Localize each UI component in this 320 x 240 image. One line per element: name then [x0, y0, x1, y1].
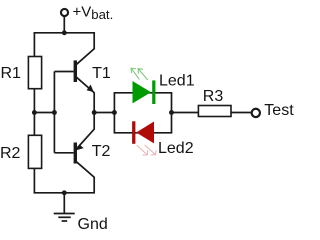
wire R3 to Test [231, 112, 252, 114]
wire bridge to R3 [172, 112, 199, 114]
wire left rail upper [33, 33, 35, 57]
wire base vertical [53, 72, 55, 153]
svg-text:T1: T1 [92, 65, 111, 82]
node base junction [52, 110, 57, 115]
Led2 emission arrows [137, 145, 156, 155]
wire mid rail segment A [34, 112, 55, 114]
wire LED bridge frame [114, 93, 173, 133]
resistor R3 [198, 106, 231, 117]
node bridge left [112, 110, 117, 115]
wire top rail [34, 32, 96, 34]
Led1 emission arrows [131, 68, 148, 80]
wire R1 to mid rail [33, 89, 35, 113]
svg-text:Gnd: Gnd [78, 216, 108, 233]
svg-text:Led1: Led1 [159, 73, 195, 90]
node ground junction [62, 190, 67, 195]
svg-text:Led2: Led2 [158, 140, 194, 157]
node bridge right [169, 110, 174, 115]
transistor T2 [54, 113, 94, 193]
wire Vbat stem [63, 16, 65, 33]
LED Led1 green [133, 80, 156, 104]
node emitter junction [92, 110, 97, 115]
ground [54, 193, 75, 221]
terminal Test [252, 109, 260, 117]
wire R2 bottom lead [33, 168, 35, 192]
transistor T1 [54, 33, 94, 113]
resistor R1 [28, 57, 41, 89]
svg-text:R1: R1 [1, 65, 22, 82]
wire mid rail segment B [94, 112, 114, 114]
svg-text:T2: T2 [92, 143, 111, 160]
resistor R2 [28, 135, 41, 168]
svg-text:+Vbat.: +Vbat. [73, 3, 114, 21]
LED Led2 red [132, 121, 154, 144]
svg-text:R3: R3 [203, 88, 224, 105]
svg-text:Test: Test [264, 102, 294, 119]
wire R2 top lead [33, 113, 35, 136]
node mid rail left junction [32, 110, 37, 115]
terminal +Vbat [61, 9, 68, 16]
node top rail junction [62, 30, 67, 35]
wire bottom rail [34, 192, 96, 194]
svg-text:R2: R2 [0, 145, 21, 162]
